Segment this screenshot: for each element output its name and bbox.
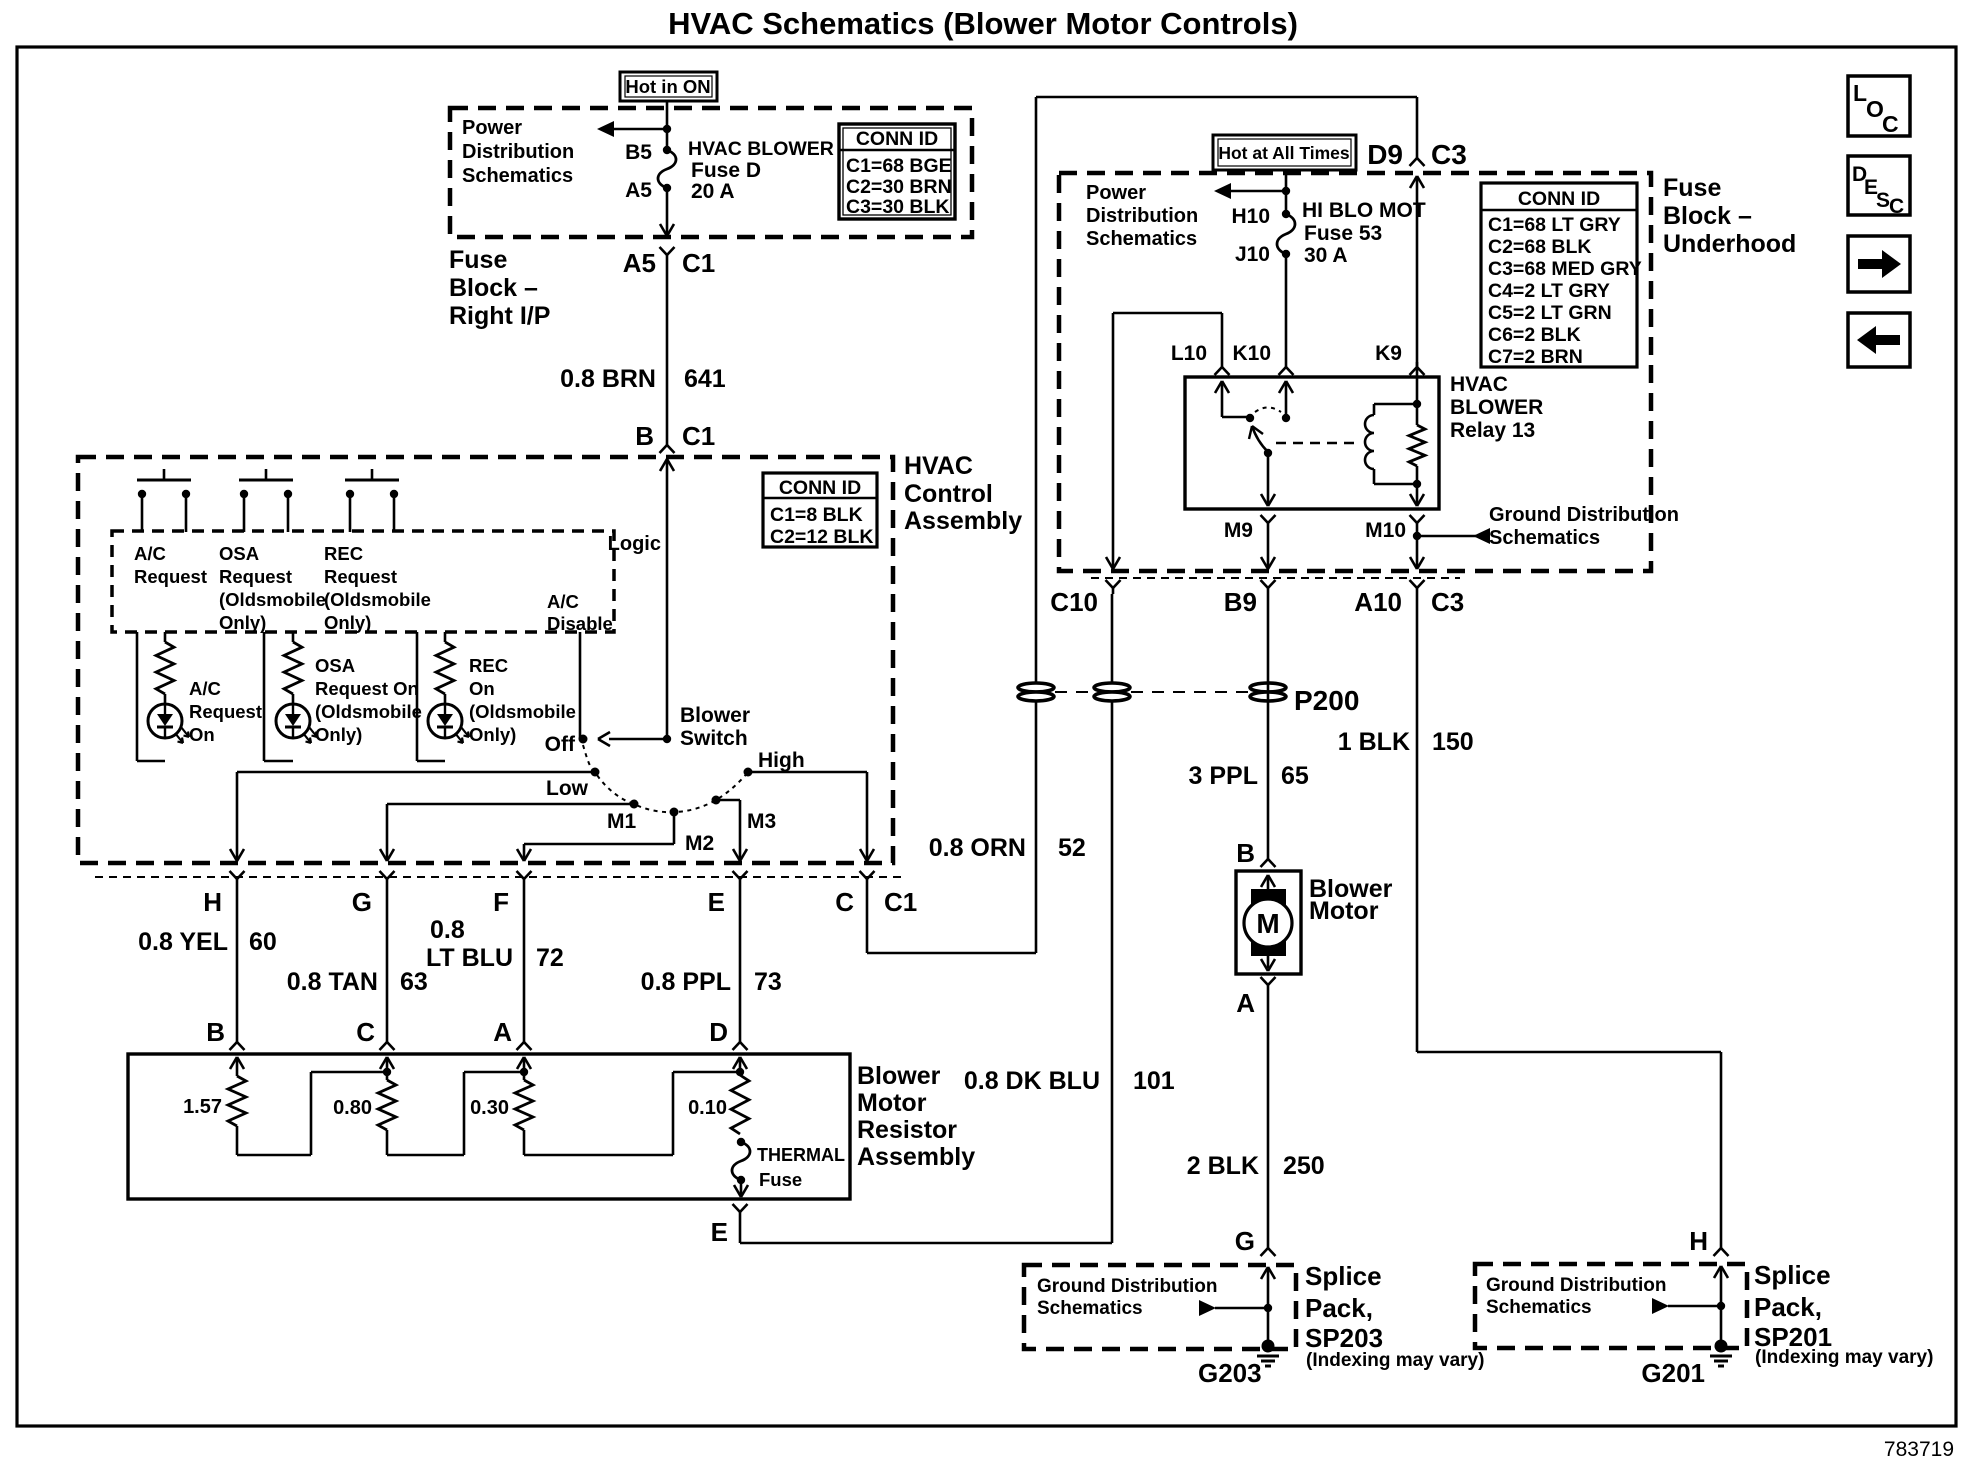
svg-text:Ground Distribution: Ground Distribution bbox=[1489, 504, 1679, 526]
svg-text:P200: P200 bbox=[1294, 685, 1359, 716]
relay common contact bbox=[1264, 449, 1272, 457]
relay contact travel dashed arc bbox=[1255, 408, 1281, 413]
svg-text:Only): Only) bbox=[324, 612, 371, 633]
svg-text:250: 250 bbox=[1283, 1152, 1325, 1180]
Power Distribution reference arrow (left) bbox=[597, 121, 667, 137]
Off contact bbox=[545, 733, 588, 756]
pin C entry arrow bbox=[380, 1057, 394, 1072]
svg-text:Schematics: Schematics bbox=[1486, 1297, 1592, 1318]
svg-text:Hot at All Times: Hot at All Times bbox=[1218, 143, 1350, 163]
svg-text:A5: A5 bbox=[625, 179, 652, 202]
svg-text:G: G bbox=[352, 887, 372, 917]
svg-text:HVAC Schematics (Blower Motor: HVAC Schematics (Blower Motor Controls) bbox=[668, 6, 1298, 41]
Low contact bbox=[546, 768, 600, 801]
svg-text:High: High bbox=[758, 749, 805, 772]
svg-text:65: 65 bbox=[1281, 762, 1309, 790]
REC Request label bbox=[324, 543, 431, 633]
thermal fuse bbox=[732, 1138, 845, 1190]
svg-text:Distribution: Distribution bbox=[462, 141, 574, 163]
A/C Disable label bbox=[547, 591, 613, 634]
resistor 1.57 ohm bbox=[183, 1076, 246, 1126]
svg-text:30 A: 30 A bbox=[1304, 244, 1348, 267]
svg-text:Request: Request bbox=[219, 566, 292, 587]
svg-text:(Oldsmobile: (Oldsmobile bbox=[469, 701, 576, 722]
svg-text:Low: Low bbox=[546, 777, 589, 800]
svg-text:A: A bbox=[1236, 988, 1255, 1018]
relay switch pivot bbox=[1246, 414, 1254, 422]
svg-text:A/C: A/C bbox=[189, 678, 221, 699]
svg-text:63: 63 bbox=[400, 968, 428, 996]
connector pin G (splice SP203) bbox=[1235, 1226, 1276, 1256]
svg-text:Switch: Switch bbox=[680, 727, 748, 750]
next-page arrow icon bbox=[1848, 236, 1910, 292]
connector pin H (splice SP201) bbox=[1689, 1226, 1728, 1256]
svg-text:HI BLO MOT: HI BLO MOT bbox=[1302, 199, 1426, 222]
blower motor internal arrows bbox=[1261, 875, 1275, 971]
CONN ID table (Fuse Block Underhood) bbox=[1481, 183, 1642, 368]
svg-text:Fuse: Fuse bbox=[759, 1169, 802, 1190]
Fuse Block Right I/P dashed box bbox=[450, 108, 972, 237]
splice SP201 reference arrow bbox=[1652, 1298, 1725, 1314]
svg-text:C1: C1 bbox=[884, 887, 917, 917]
Ground Distribution Schematics box (SP201) bbox=[1475, 1264, 1747, 1348]
svg-text:0.80: 0.80 bbox=[333, 1097, 372, 1119]
prev-page arrow icon bbox=[1848, 313, 1910, 367]
svg-text:Fuse: Fuse bbox=[1663, 174, 1721, 202]
svg-text:Pack,: Pack, bbox=[1754, 1292, 1822, 1322]
Ground Distribution reference arrow (M10) bbox=[1417, 528, 1490, 544]
svg-text:(Oldsmobile: (Oldsmobile bbox=[219, 589, 326, 610]
svg-text:C7=2 BRN: C7=2 BRN bbox=[1488, 346, 1583, 368]
svg-text:J10: J10 bbox=[1235, 243, 1270, 266]
svg-text:C10: C10 bbox=[1050, 587, 1098, 617]
relay pin K10 internal bbox=[1279, 381, 1293, 422]
Splice Pack SP203 label bbox=[1305, 1261, 1484, 1371]
svg-text:Fuse D: Fuse D bbox=[691, 159, 761, 182]
blower motor M symbol bbox=[1244, 889, 1292, 956]
connector C1 boundary line (bottom of assembly) bbox=[95, 876, 905, 878]
inner logic dashed box bbox=[112, 531, 614, 632]
relay coil suppression resistor bbox=[1409, 362, 1425, 484]
svg-text:0.8 ORN: 0.8 ORN bbox=[929, 834, 1026, 862]
svg-text:C1: C1 bbox=[682, 248, 715, 278]
wire 0.8 TAN 63 bbox=[287, 885, 428, 1037]
svg-text:C: C bbox=[356, 1017, 375, 1047]
wire from Hot in ON to fuse bbox=[666, 101, 669, 150]
svg-text:Control: Control bbox=[904, 480, 993, 508]
Blower Motor label bbox=[1309, 875, 1393, 925]
svg-text:0.8: 0.8 bbox=[430, 916, 465, 944]
svg-text:Splice: Splice bbox=[1754, 1260, 1831, 1290]
svg-text:CONN ID: CONN ID bbox=[1518, 188, 1600, 210]
connector pin A (resistor assembly) bbox=[493, 1017, 531, 1050]
wire M10 to A10 bbox=[1410, 529, 1424, 569]
svg-text:B9: B9 bbox=[1224, 587, 1257, 617]
connector pin E bbox=[708, 871, 748, 917]
connector pin H bbox=[203, 871, 244, 917]
connector pin K9 (relay) bbox=[1375, 342, 1424, 375]
Fuse Block Right I/P label bbox=[449, 246, 550, 330]
LED A/C Request On bbox=[148, 704, 189, 743]
svg-text:641: 641 bbox=[684, 365, 726, 393]
svg-text:60: 60 bbox=[249, 928, 277, 956]
svg-text:B: B bbox=[206, 1017, 225, 1047]
svg-text:E: E bbox=[711, 1217, 728, 1247]
OSA lamp branch wires bbox=[264, 632, 293, 761]
A/C Request label bbox=[134, 543, 207, 587]
svg-text:Distribution: Distribution bbox=[1086, 205, 1198, 227]
svg-text:Only): Only) bbox=[469, 724, 516, 745]
LED REC On bbox=[428, 704, 469, 743]
wire 0.8 YEL 60 bbox=[138, 885, 277, 1037]
A/C Disable wire to Off bbox=[579, 632, 582, 739]
Fuse Block Underhood dashed box bbox=[1059, 173, 1651, 571]
wire fuse 53 to relay K10 bbox=[1285, 254, 1288, 362]
svg-text:H10: H10 bbox=[1231, 205, 1270, 228]
link A-D resistor bottom loop bbox=[524, 1068, 744, 1155]
CONN ID table (HVAC Control Assembly) bbox=[763, 473, 877, 548]
svg-text:Fuse: Fuse bbox=[449, 246, 507, 274]
Blower Motor Resistor Assembly label bbox=[857, 1062, 975, 1171]
svg-text:E: E bbox=[708, 887, 725, 917]
svg-text:G201: G201 bbox=[1641, 1358, 1705, 1388]
svg-text:Hot in ON: Hot in ON bbox=[625, 76, 710, 97]
M3 contact bbox=[712, 796, 777, 834]
connector pin M9 (relay) bbox=[1224, 515, 1276, 542]
wire 0.8 DK BLU 101 bbox=[740, 594, 1175, 1243]
svg-text:Relay 13: Relay 13 bbox=[1450, 419, 1535, 442]
svg-text:Ground Distribution: Ground Distribution bbox=[1037, 1276, 1217, 1297]
Logic label bbox=[608, 533, 661, 555]
svg-text:L10: L10 bbox=[1171, 342, 1207, 365]
pin D entry arrow bbox=[733, 1057, 747, 1071]
connector D9 / C3 bbox=[1367, 139, 1467, 170]
wire 0.8 LT BLU 72 bbox=[426, 885, 564, 1037]
svg-text:M2: M2 bbox=[685, 832, 714, 855]
logic wire into assembly bbox=[660, 459, 674, 739]
svg-text:A/C: A/C bbox=[134, 543, 166, 564]
svg-text:C4=2 LT GRY: C4=2 LT GRY bbox=[1488, 280, 1610, 302]
splice SP201 wire bbox=[1714, 1266, 1728, 1341]
switch REC Request bbox=[345, 469, 399, 532]
HVAC BLOWER Relay 13 label bbox=[1450, 373, 1543, 442]
svg-text:Power: Power bbox=[462, 117, 522, 139]
splice SP203 wire bbox=[1261, 1267, 1275, 1341]
connector pin B (resistor assembly) bbox=[206, 1017, 244, 1050]
Power Distribution Schematics reference text (underhood) bbox=[1086, 182, 1198, 250]
svg-text:Right I/P: Right I/P bbox=[449, 302, 550, 330]
svg-text:0.8 DK BLU: 0.8 DK BLU bbox=[964, 1067, 1100, 1095]
svg-text:OSA: OSA bbox=[219, 543, 259, 564]
svg-text:K10: K10 bbox=[1232, 342, 1271, 365]
wire from Hot at All Times to fuse 53 bbox=[1285, 170, 1288, 214]
REC lamp branch wires bbox=[417, 632, 445, 761]
svg-text:(Oldsmobile: (Oldsmobile bbox=[315, 701, 422, 722]
svg-text:M: M bbox=[1256, 908, 1279, 939]
HVAC Control Assembly dashed box bbox=[78, 457, 893, 863]
svg-text:C1=68 BGE: C1=68 BGE bbox=[846, 155, 952, 177]
svg-text:HVAC BLOWER: HVAC BLOWER bbox=[688, 138, 834, 160]
svg-text:Blower: Blower bbox=[857, 1062, 941, 1090]
wire 0.8 ORN 52 bbox=[867, 97, 1417, 953]
svg-text:C: C bbox=[1882, 111, 1899, 137]
svg-text:CONN ID: CONN ID bbox=[856, 128, 938, 150]
Ground Distribution Schematics text (SP201) bbox=[1486, 1275, 1666, 1318]
svg-text:Underhood: Underhood bbox=[1663, 230, 1796, 258]
title bbox=[668, 6, 1298, 41]
connector pin D (resistor assembly) bbox=[709, 1017, 747, 1050]
wire Low to pin H bbox=[230, 772, 595, 861]
svg-text:C1: C1 bbox=[682, 421, 715, 451]
svg-text:SP203: SP203 bbox=[1305, 1323, 1383, 1353]
connector pin F bbox=[493, 871, 531, 917]
relay common to M9 bbox=[1261, 453, 1275, 506]
svg-text:C5=2 LT GRN: C5=2 LT GRN bbox=[1488, 302, 1612, 324]
Ground Distribution Schematics reference text (underhood) bbox=[1489, 504, 1679, 549]
connector pin M10 (relay) bbox=[1365, 515, 1424, 542]
svg-text:B: B bbox=[1236, 838, 1255, 868]
relay actuation dashed line bbox=[1276, 442, 1358, 444]
wire fuse output to connector A5 bbox=[660, 188, 674, 236]
connector B / C1 bbox=[635, 421, 715, 453]
svg-text:On: On bbox=[189, 724, 215, 745]
connector pin K10 (relay) bbox=[1232, 342, 1293, 375]
splice SP203 reference arrow bbox=[1199, 1300, 1272, 1316]
svg-text:REC: REC bbox=[324, 543, 363, 564]
svg-text:101: 101 bbox=[1133, 1067, 1175, 1095]
svg-text:A: A bbox=[493, 1017, 512, 1047]
svg-text:H: H bbox=[1689, 1226, 1708, 1256]
blower switch pivot and arm arrow bbox=[598, 732, 671, 746]
resistor 0.80 ohm bbox=[333, 1072, 396, 1130]
HVAC BLOWER Relay 13 box bbox=[1185, 377, 1439, 509]
P200 grommet on PPL wire bbox=[1250, 683, 1359, 716]
svg-text:Only): Only) bbox=[219, 612, 266, 633]
svg-text:Blower: Blower bbox=[680, 704, 750, 727]
node junction at H10 branch bbox=[1282, 187, 1290, 195]
svg-text:C3=30 BLK: C3=30 BLK bbox=[846, 196, 950, 218]
wire M2 to pin F bbox=[517, 812, 674, 861]
ground G201 bbox=[1641, 1340, 1732, 1389]
resistor (REC lamp) bbox=[436, 642, 454, 694]
LED OSA Request On bbox=[276, 704, 317, 743]
svg-text:F: F bbox=[493, 887, 509, 917]
connector pin E (resistor assembly out) bbox=[711, 1204, 748, 1247]
svg-text:Splice: Splice bbox=[1305, 1261, 1382, 1291]
svg-text:M1: M1 bbox=[607, 810, 636, 833]
svg-text:Schematics: Schematics bbox=[1489, 527, 1600, 549]
svg-text:0.30: 0.30 bbox=[470, 1097, 509, 1119]
thermal fuse exit arrow bbox=[734, 1180, 748, 1197]
svg-text:H: H bbox=[203, 887, 222, 917]
svg-text:THERMAL: THERMAL bbox=[757, 1145, 845, 1165]
svg-text:Request: Request bbox=[189, 701, 262, 722]
svg-text:C3: C3 bbox=[1431, 587, 1464, 617]
svg-text:Motor: Motor bbox=[1309, 897, 1379, 925]
svg-text:A5: A5 bbox=[623, 248, 656, 278]
svg-text:C2=12 BLK: C2=12 BLK bbox=[770, 526, 874, 548]
svg-text:(Indexing may vary): (Indexing may vary) bbox=[1755, 1347, 1933, 1368]
svg-text:Off: Off bbox=[545, 733, 576, 756]
svg-text:HVAC: HVAC bbox=[1450, 373, 1508, 396]
svg-text:M10: M10 bbox=[1365, 519, 1406, 542]
connector pin B9 bbox=[1224, 580, 1276, 617]
pin A entry arrow bbox=[517, 1057, 531, 1072]
svg-text:Request On: Request On bbox=[315, 678, 419, 699]
svg-text:C2=68 BLK: C2=68 BLK bbox=[1488, 236, 1592, 258]
svg-text:3 PPL: 3 PPL bbox=[1189, 762, 1258, 790]
svg-text:C1=68 LT GRY: C1=68 LT GRY bbox=[1488, 214, 1621, 236]
link B-C resistor bottom loop bbox=[237, 1068, 391, 1155]
grommet on ORN wire bbox=[1018, 683, 1054, 701]
wire M1 to pin G bbox=[380, 804, 634, 861]
svg-text:Schematics: Schematics bbox=[1086, 228, 1197, 250]
wire 1 BLK 150 bbox=[1338, 594, 1721, 1243]
svg-text:C3=68 MED GRY: C3=68 MED GRY bbox=[1488, 258, 1642, 280]
svg-text:REC: REC bbox=[469, 655, 508, 676]
svg-text:On: On bbox=[469, 678, 495, 699]
Ground Distribution Schematics text (SP203) bbox=[1037, 1276, 1217, 1319]
connector pin A10 / C3 bbox=[1354, 580, 1464, 617]
wire High to pin C bbox=[748, 772, 874, 861]
svg-text:1.57: 1.57 bbox=[183, 1096, 222, 1118]
svg-text:A/C: A/C bbox=[547, 591, 579, 612]
wire 2 BLK 250 bbox=[1187, 991, 1325, 1243]
connector A5 / C1 bbox=[623, 247, 716, 278]
REC On label bbox=[469, 655, 576, 745]
svg-text:Fuse 53: Fuse 53 bbox=[1304, 222, 1382, 245]
svg-text:C2=30 BRN: C2=30 BRN bbox=[846, 176, 952, 198]
svg-text:B5: B5 bbox=[625, 141, 652, 164]
Ground Distribution Schematics box (SP203) bbox=[1024, 1265, 1296, 1349]
svg-text:G: G bbox=[1235, 1226, 1255, 1256]
svg-text:(Indexing may vary): (Indexing may vary) bbox=[1306, 1350, 1484, 1371]
svg-text:Pack,: Pack, bbox=[1305, 1293, 1373, 1323]
switch A/C Request bbox=[137, 469, 191, 532]
svg-text:0.8 TAN: 0.8 TAN bbox=[287, 968, 378, 996]
resistor 0.30 ohm bbox=[470, 1072, 533, 1130]
link C-A resistor bottom loop bbox=[387, 1068, 528, 1155]
wire M3 to pin E bbox=[716, 800, 747, 861]
svg-text:Request: Request bbox=[134, 566, 207, 587]
svg-text:G203: G203 bbox=[1198, 1358, 1262, 1388]
switch OSA Request bbox=[239, 469, 293, 532]
wire 0.8 PPL 73 bbox=[641, 885, 782, 1037]
HVAC Control Assembly label bbox=[904, 452, 1022, 535]
M1 contact bbox=[607, 800, 639, 834]
connector pin A (blower motor) bbox=[1236, 977, 1275, 1018]
LOC icon box bbox=[1848, 76, 1910, 137]
wire 0.8 BRN 641 bbox=[666, 261, 669, 440]
connector pin G bbox=[352, 871, 395, 917]
svg-text:A10: A10 bbox=[1354, 587, 1402, 617]
svg-text:K9: K9 bbox=[1375, 342, 1402, 365]
Hot in ON label box bbox=[620, 72, 717, 101]
connector pin C (resistor assembly) bbox=[356, 1017, 394, 1050]
svg-text:0.8 PPL: 0.8 PPL bbox=[641, 968, 731, 996]
resistor (A/C Request lamp) bbox=[156, 642, 174, 694]
OSA Request On label bbox=[315, 655, 422, 745]
svg-text:C3: C3 bbox=[1431, 139, 1467, 170]
grommet on DK BLU wire bbox=[1094, 683, 1130, 701]
svg-text:OSA: OSA bbox=[315, 655, 355, 676]
High contact bbox=[744, 749, 805, 777]
svg-text:72: 72 bbox=[536, 944, 564, 972]
connector pin C10 bbox=[1050, 580, 1120, 617]
OSA Request label bbox=[219, 543, 326, 633]
Fuse Block Underhood label bbox=[1663, 174, 1796, 258]
resistor 0.10 ohm bbox=[688, 1075, 749, 1134]
svg-text:D: D bbox=[709, 1017, 728, 1047]
connector pin L10 (relay) bbox=[1171, 342, 1230, 375]
Blower Motor Resistor Assembly box bbox=[128, 1054, 850, 1199]
wire L10 loop to C10 bbox=[1106, 313, 1222, 569]
Blower Motor box bbox=[1236, 871, 1301, 974]
svg-text:Block –: Block – bbox=[1663, 202, 1752, 230]
relay K9 to M10 bbox=[1410, 484, 1424, 506]
svg-text:L: L bbox=[1853, 80, 1867, 106]
node M10 ground branch bbox=[1413, 532, 1421, 540]
svg-text:C6=2 BLK: C6=2 BLK bbox=[1488, 324, 1581, 346]
svg-text:Assembly: Assembly bbox=[904, 507, 1022, 535]
svg-text:0.8 BRN: 0.8 BRN bbox=[560, 365, 656, 393]
pin B entry arrow bbox=[230, 1057, 244, 1076]
Power Distribution reference arrow (underhood) bbox=[1214, 183, 1286, 199]
svg-text:Power: Power bbox=[1086, 182, 1146, 204]
svg-text:150: 150 bbox=[1432, 728, 1474, 756]
svg-text:Schematics: Schematics bbox=[462, 165, 573, 187]
fuse HI BLO MOT Fuse 53 30A bbox=[1231, 199, 1425, 267]
svg-text:0.8 YEL: 0.8 YEL bbox=[138, 928, 228, 956]
connector C3 boundary line (under fuse block) bbox=[1091, 577, 1460, 579]
wire D9 into box bbox=[1410, 176, 1424, 362]
svg-text:LT BLU: LT BLU bbox=[426, 944, 513, 972]
svg-text:Motor: Motor bbox=[857, 1089, 927, 1117]
Hot at All Times label box bbox=[1213, 135, 1356, 170]
resistor (OSA lamp) bbox=[284, 642, 302, 694]
svg-text:B: B bbox=[635, 421, 654, 451]
svg-text:M3: M3 bbox=[747, 810, 776, 833]
node junction at B5 branch bbox=[663, 125, 671, 133]
Splice Pack SP201 label bbox=[1754, 1260, 1933, 1368]
svg-text:M9: M9 bbox=[1224, 519, 1253, 542]
svg-text:1 BLK: 1 BLK bbox=[1338, 728, 1410, 756]
svg-text:783719: 783719 bbox=[1884, 1438, 1954, 1461]
blower switch arc bbox=[583, 745, 748, 812]
svg-text:Request: Request bbox=[324, 566, 397, 587]
Blower Switch label bbox=[680, 704, 750, 750]
svg-text:Resistor: Resistor bbox=[857, 1116, 957, 1144]
svg-text:Only): Only) bbox=[315, 724, 362, 745]
svg-text:C: C bbox=[1889, 195, 1904, 218]
svg-text:BLOWER: BLOWER bbox=[1450, 396, 1543, 419]
svg-text:Ground Distribution: Ground Distribution bbox=[1486, 1275, 1666, 1296]
DESC icon box bbox=[1848, 156, 1910, 218]
P200 dashed link line bbox=[1055, 691, 1249, 693]
svg-text:Assembly: Assembly bbox=[857, 1143, 975, 1171]
A/C Request On label bbox=[189, 678, 262, 745]
connector pin B (blower motor) bbox=[1236, 838, 1275, 868]
svg-text:2 BLK: 2 BLK bbox=[1187, 1152, 1259, 1180]
CONN ID table (Fuse Block Right I/P) bbox=[839, 124, 955, 219]
drawing number 783719 bbox=[1884, 1438, 1954, 1461]
svg-text:C1=8 BLK: C1=8 BLK bbox=[770, 504, 863, 526]
svg-text:HVAC: HVAC bbox=[904, 452, 973, 480]
svg-text:S: S bbox=[1876, 189, 1890, 212]
svg-text:Disable: Disable bbox=[547, 613, 613, 634]
svg-text:52: 52 bbox=[1058, 834, 1086, 862]
relay coil bbox=[1365, 400, 1421, 488]
